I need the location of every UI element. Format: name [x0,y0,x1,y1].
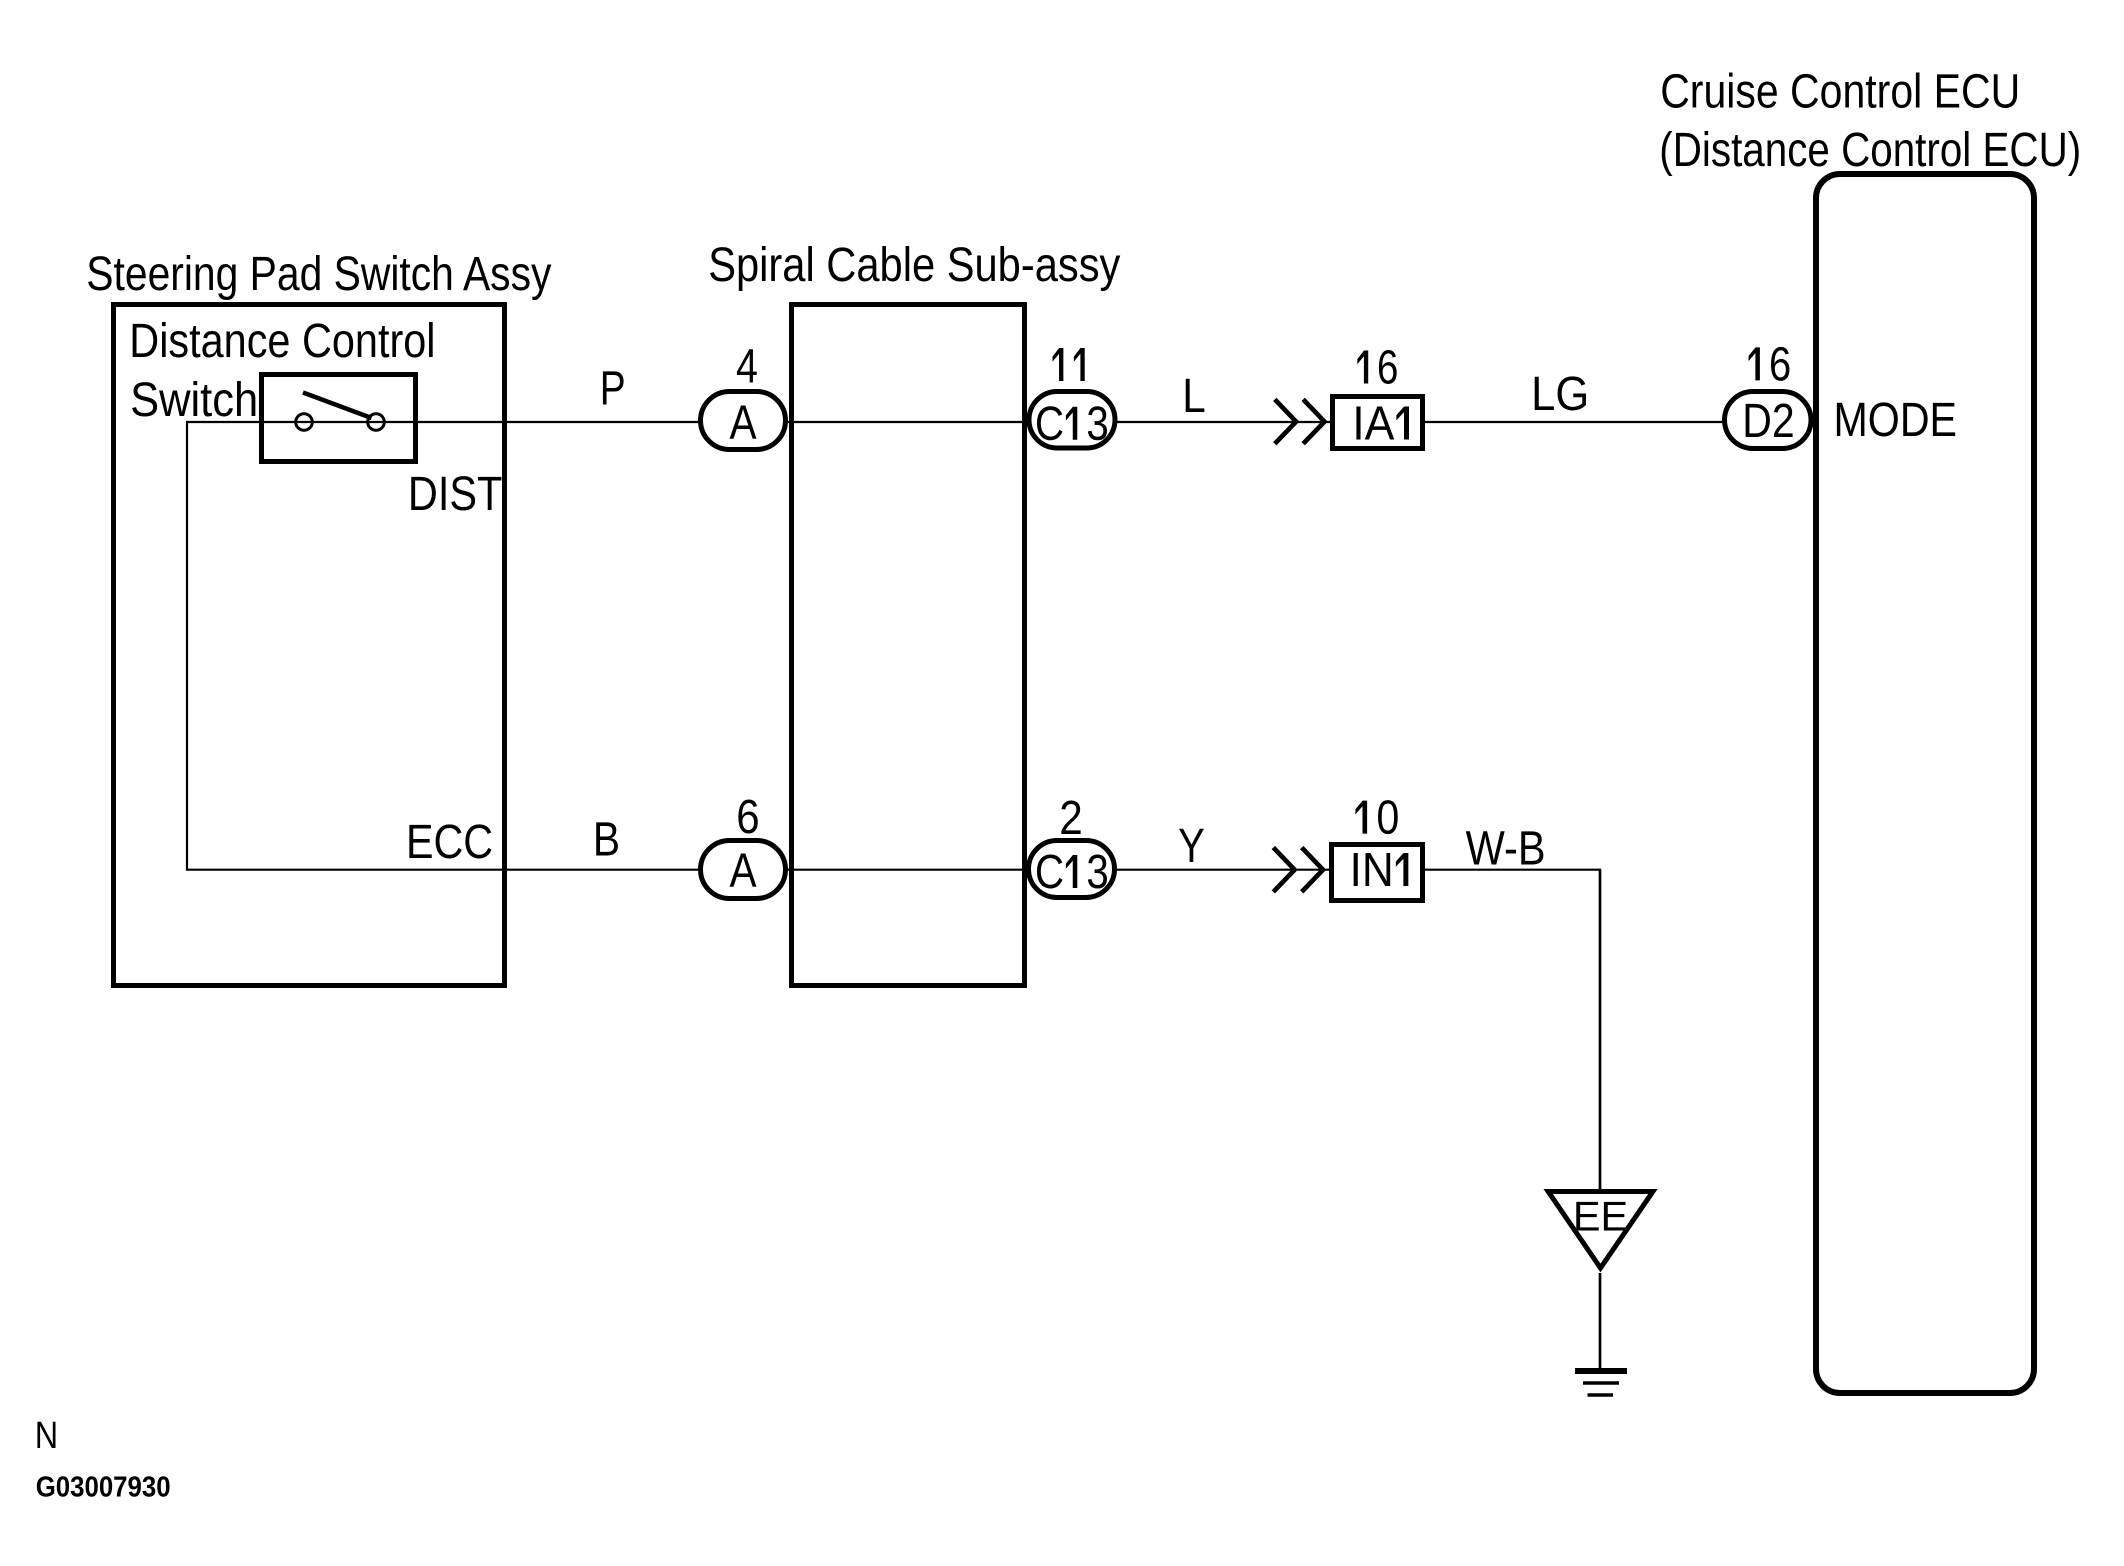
svg-text:Switch: Switch [130,374,258,427]
svg-text:G03007930: G03007930 [36,1472,171,1504]
svg-text:LG: LG [1531,368,1589,421]
svg-text:(Distance Control ECU): (Distance Control ECU) [1659,124,2081,177]
svg-text:Y: Y [1178,820,1205,873]
svg-text:A: A [729,844,756,897]
svg-text:Steering Pad Switch Assy: Steering Pad Switch Assy [86,248,551,301]
svg-text:6: 6 [736,791,759,844]
svg-text:P: P [600,363,626,416]
svg-text:4: 4 [736,341,758,394]
svg-text:ECC: ECC [406,816,493,869]
svg-text:EE: EE [1573,1192,1628,1239]
svg-text:B: B [593,814,620,867]
svg-text:DIST: DIST [408,468,502,521]
svg-text:A: A [729,396,756,449]
svg-text:D2: D2 [1742,395,1794,448]
svg-text:MODE: MODE [1834,394,1958,447]
svg-text:W-B: W-B [1466,823,1546,876]
svg-text:Distance Control: Distance Control [129,315,435,368]
svg-text:Cruise Control ECU: Cruise Control ECU [1660,66,2020,119]
svg-text:N: N [35,1415,58,1457]
svg-text:L: L [1182,370,1206,423]
svg-text:2: 2 [1059,792,1083,845]
svg-text:Spiral Cable Sub-assy: Spiral Cable Sub-assy [708,239,1120,292]
